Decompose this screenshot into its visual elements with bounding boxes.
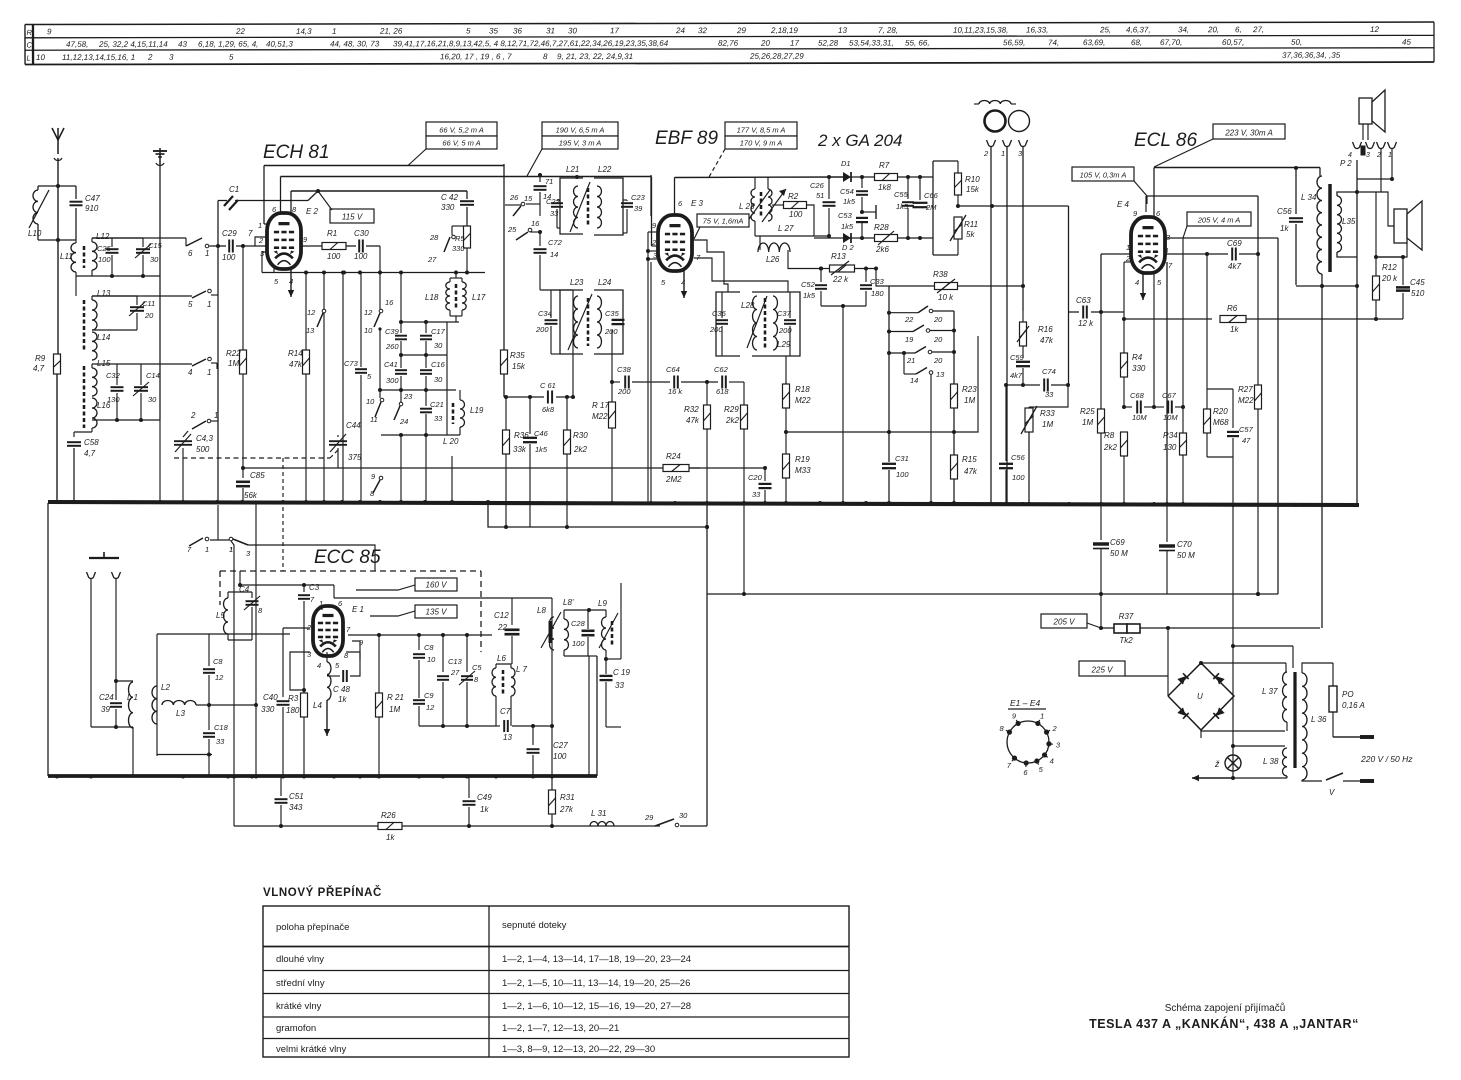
- svg-text:C 61: C 61: [540, 381, 556, 390]
- svg-text:177 V, 8,5 m A: 177 V, 8,5 m A: [737, 126, 786, 135]
- svg-text:50,: 50,: [1291, 38, 1302, 47]
- wire plate to L34: [1319, 168, 1321, 177]
- svg-text:1k5: 1k5: [896, 202, 909, 211]
- svg-text:20: 20: [933, 335, 943, 344]
- svg-text:1—2, 1—6, 10—12, 15—16, 19—20,: 1—2, 1—6, 10—12, 15—16, 19—20, 27—28: [502, 1001, 691, 1012]
- speaker mid right: [1394, 209, 1407, 243]
- capacitor C59: [1016, 361, 1030, 363]
- svg-text:1: 1: [205, 249, 209, 258]
- coil L26 frame: [759, 236, 761, 250]
- svg-text:16 k: 16 k: [668, 387, 683, 396]
- wire prong3 down: [1022, 147, 1024, 311]
- capacitor C41: [400, 355, 402, 368]
- svg-text:23: 23: [403, 392, 413, 401]
- svg-text:ECH 81: ECH 81: [263, 142, 330, 163]
- wire grid drop: [651, 177, 653, 247]
- svg-text:C68: C68: [1130, 391, 1145, 400]
- svg-text:100: 100: [896, 470, 909, 479]
- svg-text:Tk2: Tk2: [1119, 636, 1133, 645]
- switch contact 2-1: [192, 421, 206, 429]
- svg-text:10: 10: [36, 53, 45, 62]
- svg-text:2k2: 2k2: [573, 445, 587, 454]
- xfmr core: [1328, 184, 1331, 272]
- svg-text:C24: C24: [99, 693, 114, 702]
- svg-text:C: C: [26, 40, 32, 49]
- svg-text:10: 10: [366, 397, 375, 406]
- wire bridge bottom: [1200, 730, 1202, 738]
- row355: [401, 354, 447, 356]
- svg-text:68,: 68,: [1131, 38, 1142, 47]
- svg-text:1: 1: [332, 27, 337, 36]
- svg-text:L10: L10: [28, 229, 42, 238]
- wire R36 col: [505, 397, 507, 430]
- wire tap line 646: [1233, 645, 1293, 647]
- wire L12 top to switch: [92, 237, 186, 239]
- wire pin2 left: [283, 627, 310, 629]
- wire C28 to bus: [588, 656, 590, 776]
- wire x48 left edge: [47, 503, 49, 776]
- coil L10: [33, 190, 38, 224]
- wire x1154 vert: [1153, 273, 1155, 407]
- wire dipole feed: [90, 690, 92, 727]
- wire left column: [56, 238, 60, 242]
- wire plate line ECL: [1154, 167, 1320, 169]
- coil L3: [162, 701, 196, 706]
- wire x1167 below: [1166, 551, 1168, 594]
- svg-text:L5: L5: [216, 611, 225, 620]
- capacitor C67: [1154, 406, 1164, 408]
- svg-text:R24: R24: [666, 452, 681, 461]
- svg-text:15k: 15k: [966, 185, 980, 194]
- parts index bar frame: [25, 22, 1434, 24]
- capacitor C33: [865, 269, 867, 283]
- svg-text:4: 4: [317, 661, 321, 670]
- svg-text:C13: C13: [448, 657, 463, 666]
- voltage box 177V: [725, 122, 797, 136]
- svg-text:6,: 6,: [1235, 25, 1242, 34]
- svg-text:330: 330: [261, 705, 275, 714]
- svg-text:C36: C36: [712, 309, 727, 318]
- svg-text:24: 24: [675, 26, 685, 35]
- leader 223V: [1154, 139, 1213, 167]
- coil L8p: [564, 619, 569, 650]
- wire speaker right net: [1357, 191, 1381, 193]
- svg-text:L14: L14: [97, 333, 111, 342]
- svg-text:C45: C45: [1410, 278, 1425, 287]
- svg-text:C70: C70: [1177, 540, 1192, 549]
- coil L5: [224, 598, 229, 634]
- core L25: [760, 192, 763, 218]
- svg-text:PO: PO: [1342, 690, 1354, 699]
- svg-text:1—2, 1—7, 12—13, 20—21: 1—2, 1—7, 12—13, 20—21: [502, 1023, 619, 1034]
- switch contact 5-1: [92, 295, 137, 297]
- wire L7 to C7: [510, 696, 512, 726]
- resistor R6: [1124, 318, 1212, 320]
- svg-text:R33: R33: [1040, 409, 1055, 418]
- tube ECC85 E1: [313, 606, 343, 656]
- wire left frame: [157, 633, 290, 635]
- wire spk return: [1376, 243, 1407, 257]
- svg-text:R3: R3: [288, 694, 299, 703]
- svg-text:R29: R29: [724, 405, 739, 414]
- capacitor C31: [882, 463, 896, 465]
- svg-text:sepnuté doteky: sepnuté doteky: [502, 920, 567, 931]
- svg-text:33: 33: [434, 414, 443, 423]
- wire L36 top: [1302, 663, 1333, 673]
- wire L27 bottom line: [755, 235, 828, 237]
- svg-text:2M: 2M: [925, 203, 937, 212]
- wire L35 right: [1356, 192, 1358, 257]
- svg-text:75 V, 1,6mA: 75 V, 1,6mA: [703, 217, 744, 226]
- svg-text:1k5: 1k5: [535, 445, 548, 454]
- svg-text:130: 130: [107, 395, 120, 404]
- svg-text:2: 2: [258, 236, 264, 245]
- wire C57 bottom: [1207, 456, 1233, 458]
- svg-text:100: 100: [222, 253, 236, 262]
- svg-text:10,11,23,15,38,: 10,11,23,15,38,: [953, 26, 1008, 35]
- wire pin3 left: [262, 251, 267, 253]
- wire IF top line: [503, 164, 505, 350]
- wire x1154: [1153, 160, 1155, 162]
- svg-text:L6: L6: [497, 654, 506, 663]
- leader 205V4mA: [1183, 226, 1187, 238]
- svg-text:25, 32,2 4,15,11,14: 25, 32,2 4,15,11,14: [98, 40, 168, 49]
- speaker top right: [1359, 98, 1372, 124]
- svg-text:R30: R30: [573, 431, 588, 440]
- svg-text:12 k: 12 k: [1078, 319, 1094, 328]
- svg-text:67,70,: 67,70,: [1160, 38, 1182, 47]
- svg-text:10M: 10M: [1163, 413, 1178, 422]
- svg-text:34,: 34,: [1178, 25, 1189, 34]
- svg-text:L 20: L 20: [443, 437, 459, 446]
- resistor R16: [1020, 322, 1027, 346]
- ground line down: [159, 366, 161, 420]
- core L18/L17: [455, 284, 458, 308]
- svg-text:100: 100: [572, 639, 585, 648]
- svg-text:35: 35: [489, 26, 498, 35]
- svg-text:P 2: P 2: [1340, 159, 1352, 168]
- svg-text:47,58,: 47,58,: [66, 40, 88, 49]
- pot R33: [1025, 408, 1033, 432]
- capacitor C11: [92, 295, 137, 297]
- row390: [380, 389, 456, 391]
- svg-text:44, 48, 30, 73: 44, 48, 30, 73: [330, 39, 380, 48]
- xfmr circle R: [1009, 111, 1030, 132]
- wire plate line C: [291, 190, 467, 192]
- resistor R22: [240, 350, 247, 374]
- svg-text:66 V, 5,2 m A: 66 V, 5,2 m A: [439, 126, 484, 135]
- svg-text:4,7: 4,7: [84, 449, 96, 458]
- svg-text:6k8: 6k8: [542, 405, 555, 414]
- xfmr circle L: [985, 111, 1006, 132]
- xfmr core power: [1293, 672, 1296, 768]
- wire bridge top: [1231, 644, 1235, 648]
- bridge diode 4: [1213, 707, 1224, 718]
- wire pin7 down: [1166, 262, 1168, 506]
- svg-text:25: 25: [507, 225, 517, 234]
- tuning arrow L28: [747, 296, 767, 348]
- svg-text:9: 9: [47, 27, 52, 36]
- wire D2 line: [814, 237, 843, 239]
- svg-text:1M: 1M: [964, 396, 975, 405]
- capacitor C53: [856, 217, 868, 219]
- svg-text:E 2: E 2: [306, 207, 319, 216]
- svg-text:105 V, 0,3m A: 105 V, 0,3m A: [1080, 171, 1127, 180]
- coil L15: [92, 368, 97, 396]
- wire row594: [707, 593, 1278, 595]
- capacitor C49: [468, 776, 470, 796]
- coil L19: [460, 400, 465, 427]
- svg-text:2,18,19: 2,18,19: [770, 26, 798, 35]
- voltage box 105V: [1072, 167, 1134, 181]
- svg-text:47k: 47k: [686, 416, 700, 425]
- svg-text:30: 30: [434, 375, 443, 384]
- coil L31: [590, 822, 614, 827]
- svg-text:M22: M22: [592, 412, 608, 421]
- svg-text:E 4: E 4: [1117, 200, 1130, 209]
- wire row 432: [786, 431, 954, 433]
- svg-text:6,18, 1,29, 65, 4,: 6,18, 1,29, 65, 4,: [198, 40, 258, 49]
- svg-text:47k: 47k: [964, 467, 978, 476]
- svg-text:16: 16: [531, 219, 540, 228]
- svg-text:25,26,28,27,29: 25,26,28,27,29: [749, 52, 804, 61]
- svg-text:R19: R19: [795, 455, 810, 464]
- bus dots: [55, 500, 59, 504]
- svg-text:1: 1: [1040, 712, 1044, 721]
- wire x256 down: [255, 502, 257, 776]
- coil L35: [1337, 196, 1342, 252]
- wire can bottom link: [589, 655, 597, 657]
- capacitor C3: [303, 585, 305, 592]
- wire EBF pin7 route: [694, 258, 788, 292]
- svg-text:39,41,17,16,21,8,9,13,42,5, 4: 39,41,17,16,21,8,9,13,42,5, 4 8,12,71,72…: [393, 39, 669, 48]
- wire 225V to bridge: [1125, 675, 1168, 677]
- svg-text:4: 4: [1348, 152, 1352, 159]
- svg-text:L8': L8': [563, 598, 574, 607]
- capacitor C27: [532, 726, 534, 745]
- resistor R9: [54, 354, 61, 374]
- main ground bus: [48, 502, 1359, 505]
- wire L38 bottom: [1286, 776, 1288, 778]
- leader 135V: [370, 611, 415, 616]
- svg-text:1: 1: [1388, 152, 1392, 159]
- wire x1183 vert: [1182, 238, 1184, 407]
- svg-text:11,12,13,14,15,16, 1: 11,12,13,14,15,16, 1: [62, 53, 135, 62]
- svg-text:R26: R26: [381, 811, 396, 820]
- ecc ground bus: [48, 774, 597, 778]
- coil L38: [1283, 748, 1288, 776]
- svg-text:30: 30: [150, 255, 159, 264]
- wire x707 long: [706, 594, 708, 826]
- svg-text:190 V, 6,5 m A: 190 V, 6,5 m A: [556, 126, 605, 135]
- table col divider: [488, 906, 490, 1057]
- svg-text:C69: C69: [1110, 538, 1125, 547]
- capacitor C15 trimmer: [125, 237, 143, 239]
- capacitor C7: [496, 725, 499, 727]
- svg-text:VLNOVÝ PŘEPÍNAČ: VLNOVÝ PŘEPÍNAČ: [263, 886, 382, 899]
- resistor R29: [741, 405, 748, 429]
- capacitor C40: [282, 628, 284, 697]
- wire pin9: [352, 641, 360, 652]
- svg-text:24: 24: [399, 417, 408, 426]
- wire pin1 left: [1101, 253, 1130, 255]
- wire pin1 jog: [264, 223, 268, 225]
- svg-text:C49: C49: [477, 793, 492, 802]
- capacitor C14: [140, 364, 142, 385]
- wire 30 to x707: [680, 825, 707, 827]
- resistor R28: [875, 235, 898, 242]
- svg-text:30: 30: [434, 341, 443, 350]
- svg-text:20: 20: [144, 311, 154, 320]
- svg-text:260: 260: [385, 342, 399, 351]
- wire L38 top: [1233, 745, 1285, 747]
- svg-text:C53: C53: [838, 211, 853, 220]
- svg-text:1M: 1M: [1082, 418, 1093, 427]
- capacitor C25: [92, 237, 125, 239]
- svg-text:7, 28,: 7, 28,: [878, 26, 898, 35]
- svg-text:C3: C3: [309, 583, 320, 592]
- capacitor C47: [75, 186, 77, 199]
- svg-text:300: 300: [386, 376, 399, 385]
- svg-text:17: 17: [610, 26, 619, 35]
- svg-text:R1: R1: [327, 229, 337, 238]
- wire row468: [243, 467, 700, 469]
- wire L26 ends: [755, 236, 760, 250]
- wire tank3 bottom: [92, 419, 160, 421]
- svg-text:1k: 1k: [338, 695, 347, 704]
- svg-text:51: 51: [816, 191, 824, 200]
- svg-text:1—3, 8—9, 12—13, 20—22, 29—30: 1—3, 8—9, 12—13, 20—22, 29—30: [502, 1044, 655, 1055]
- wire x612 lower: [611, 428, 613, 502]
- svg-text:L26: L26: [766, 255, 780, 264]
- mains aerial coil: [979, 100, 1011, 104]
- capacitor C34: [545, 319, 558, 321]
- wire osc right: [484, 272, 486, 274]
- svg-text:71: 71: [545, 177, 553, 186]
- socket spokes: [1016, 720, 1018, 724]
- capacitor C51: [280, 776, 282, 796]
- svg-text:L 7: L 7: [516, 665, 528, 674]
- svg-text:C73: C73: [344, 359, 359, 368]
- svg-text:29: 29: [644, 813, 654, 822]
- row435: [381, 434, 460, 436]
- wire sw22 stub: [889, 312, 918, 314]
- svg-text:L3: L3: [176, 709, 185, 718]
- capacitor C16: [425, 355, 427, 368]
- svg-text:EBF 89: EBF 89: [655, 128, 718, 149]
- svg-text:R20: R20: [1213, 407, 1228, 416]
- svg-text:53,54,33,31,: 53,54,33,31,: [849, 38, 894, 47]
- switch contact 6-1: [185, 238, 187, 246]
- resistor R34: [1180, 433, 1187, 455]
- wire row726: [419, 725, 496, 727]
- wire L25 tops: [754, 177, 756, 189]
- capacitor C23: [623, 199, 627, 201]
- rail x324: [323, 273, 325, 310]
- svg-text:1k: 1k: [1280, 224, 1289, 233]
- svg-text:17: 17: [790, 39, 799, 48]
- core L21/L22: [587, 188, 590, 226]
- svg-text:36: 36: [513, 26, 522, 35]
- capacitor C44: [337, 435, 339, 437]
- svg-text:100: 100: [327, 252, 341, 261]
- svg-text:9, 21, 23, 22, 24,9,31: 9, 21, 23, 22, 24,9,31: [557, 52, 633, 61]
- wire x651: [650, 262, 652, 502]
- wire bridge right vert: [1232, 646, 1234, 778]
- resistor R13: [788, 268, 821, 270]
- svg-text:R 17: R 17: [592, 401, 609, 410]
- diode D2: [843, 233, 851, 243]
- frame L24: [594, 290, 623, 354]
- svg-text:R12: R12: [1382, 263, 1397, 272]
- core L8: [548, 621, 551, 643]
- svg-text:33: 33: [216, 737, 225, 746]
- svg-text:10: 10: [364, 326, 373, 335]
- wire pin4 arrow: [321, 652, 323, 656]
- wire pin2: [1124, 261, 1130, 263]
- svg-text:C18: C18: [214, 723, 229, 732]
- resistor R24: [663, 465, 689, 472]
- svg-text:20: 20: [933, 315, 943, 324]
- svg-text:M68: M68: [1213, 418, 1229, 427]
- switch contact 4-1: [192, 359, 206, 366]
- svg-text:R16: R16: [1038, 325, 1053, 334]
- svg-text:L28: L28: [741, 301, 755, 310]
- bridge diode 1: [1177, 673, 1188, 684]
- svg-text:14: 14: [550, 250, 558, 259]
- wire L16 bottom: [74, 431, 92, 433]
- wire C56 top: [1006, 384, 1023, 386]
- capacitor C52: [820, 269, 822, 283]
- svg-text:47: 47: [1242, 436, 1251, 445]
- capacitor C74: [1023, 384, 1040, 386]
- coil L6: [492, 668, 496, 696]
- svg-text:L4: L4: [313, 701, 322, 710]
- svg-text:V: V: [1329, 788, 1335, 797]
- svg-text:12: 12: [426, 703, 435, 712]
- svg-text:E 1: E 1: [352, 605, 364, 614]
- coil L24: [597, 296, 602, 348]
- wire 3 to ecc: [248, 545, 375, 571]
- capacitor C19: [600, 675, 613, 677]
- svg-text:39: 39: [634, 204, 643, 213]
- svg-text:C56: C56: [1277, 207, 1292, 216]
- svg-text:7: 7: [248, 229, 253, 238]
- svg-text:R14: R14: [288, 349, 303, 358]
- svg-text:R23: R23: [962, 385, 977, 394]
- voltage box 135V: [415, 605, 457, 618]
- tuning arrow L21: [570, 182, 590, 232]
- FM dipole: [89, 557, 119, 559]
- wire L21 top to line: [539, 177, 541, 182]
- wire ECL top lines: [1153, 168, 1155, 218]
- coil L37: [1283, 672, 1288, 722]
- resistor R8: [1121, 432, 1128, 456]
- svg-text:4k7: 4k7: [1228, 262, 1241, 271]
- wire L6 top: [495, 664, 497, 668]
- svg-text:225 V: 225 V: [1091, 666, 1114, 675]
- svg-text:66 V, 5 m A: 66 V, 5 m A: [442, 139, 480, 148]
- transformer core L11/L12: [83, 246, 86, 268]
- bridge diode 2: [1213, 673, 1224, 684]
- resistor R14: [303, 350, 310, 374]
- svg-text:13: 13: [306, 326, 315, 335]
- svg-text:C5: C5: [472, 663, 482, 672]
- svg-text:2: 2: [1051, 724, 1057, 733]
- capacitor C37: [784, 319, 796, 321]
- svg-text:C72: C72: [548, 238, 563, 247]
- svg-text:3: 3: [1366, 152, 1370, 159]
